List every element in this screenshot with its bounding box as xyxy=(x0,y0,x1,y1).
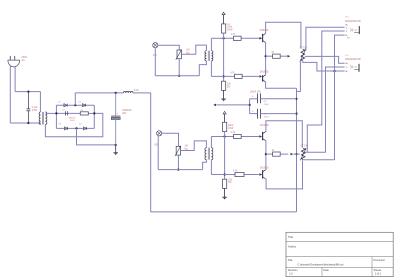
wire ch2 upper base rail xyxy=(211,136,233,138)
input jack J2 xyxy=(157,131,162,136)
svg-text:SPEAKER 8R: SPEAKER 8R xyxy=(345,20,361,23)
wire DC plus rail xyxy=(75,92,123,94)
wire spk1 pin3 feed xyxy=(335,35,345,160)
junction xyxy=(249,104,251,106)
wire P2 wiper to T2 xyxy=(181,141,207,151)
junction bridge right xyxy=(93,112,95,114)
trimmer TP2 xyxy=(301,148,305,159)
resistor R7 bias lower xyxy=(223,179,227,188)
svg-text:Date: Date xyxy=(324,269,330,272)
svg-text:0.1uF: 0.1uF xyxy=(32,107,38,109)
resistor R1 bias upper xyxy=(222,24,226,33)
wire bottom AC rail xyxy=(10,122,40,124)
junction xyxy=(115,144,117,146)
svg-text:47uF: 47uF xyxy=(264,104,270,106)
svg-text:SET 50: SET 50 xyxy=(300,145,308,147)
supply arrow VCC2 xyxy=(224,114,226,122)
wire bridge plus up xyxy=(74,93,76,105)
transistor Q2 xyxy=(262,75,264,81)
capacitor C4 xyxy=(257,93,259,103)
wire Q1 collector rail xyxy=(266,22,301,48)
wire P1 bottom xyxy=(178,59,180,76)
wire TP1 left down xyxy=(297,61,301,91)
wire P1 wiper to T1 xyxy=(181,45,206,54)
diode D2 xyxy=(82,104,85,107)
wire T2 right top up xyxy=(210,137,212,148)
wire step to T2 left bottom xyxy=(203,160,207,170)
svg-text:1mH: 1mH xyxy=(134,90,139,92)
junction xyxy=(224,173,226,175)
inductor L1 xyxy=(123,92,133,93)
svg-text:2N3055: 2N3055 xyxy=(260,167,269,170)
svg-text:Author: Author xyxy=(288,245,296,249)
svg-text:C:\p\words\Overlgrams\fishcham: C:\p\words\Overlgrams\fishchamp\B4.sch xyxy=(298,263,345,266)
svg-text:100k: 100k xyxy=(227,27,233,29)
junction xyxy=(178,75,180,77)
capacitor C1 X-cap xyxy=(27,92,29,109)
wire to R5 xyxy=(266,55,273,57)
svg-text:Title: Title xyxy=(288,235,294,239)
junction xyxy=(115,92,117,94)
wire R10 to arrow xyxy=(280,153,288,155)
resistor R4 series base Q2 xyxy=(235,74,243,78)
wire Q4 emitter rail xyxy=(266,160,302,189)
resistor R10 output xyxy=(273,152,281,156)
net arrow PSU xyxy=(213,104,216,107)
wire bias column ch1 xyxy=(223,33,225,81)
net arrow OUT1 xyxy=(288,55,291,58)
big loop left xyxy=(150,93,152,212)
wire top AC rail xyxy=(15,91,40,93)
wire ch1 upper base rail xyxy=(211,37,233,39)
resistor R8 series base Q3 xyxy=(234,134,242,138)
svg-text:275V: 275V xyxy=(32,110,38,112)
junction xyxy=(27,91,29,93)
wire ch2 lower base rail xyxy=(211,174,235,176)
junction xyxy=(295,98,297,100)
svg-text:2N3055: 2N3055 xyxy=(260,71,269,74)
input jack J1 xyxy=(153,43,158,48)
wire T2 right bottom down xyxy=(210,160,212,175)
svg-text:1/4W: 1/4W xyxy=(227,30,233,32)
svg-text:2N3055: 2N3055 xyxy=(260,124,269,127)
ground GND2 ch1 xyxy=(223,90,225,99)
wire step to T1 left bottom xyxy=(199,61,206,76)
wire Q3 emitter to Q4 collector xyxy=(265,141,267,170)
junction xyxy=(223,75,225,77)
net arrow OUT2 xyxy=(291,153,294,156)
wire to R10 xyxy=(266,153,273,155)
resistor R9 series base Q4 xyxy=(235,172,244,176)
potentiometer P1 volume xyxy=(177,50,181,59)
big common rail right xyxy=(296,88,298,212)
resistor R6 bias upper xyxy=(223,122,227,131)
big loop bottom xyxy=(151,211,297,213)
bridge rectifier frame xyxy=(55,105,57,128)
resistor R3 series base Q1 xyxy=(234,36,242,40)
svg-text:SET 50: SET 50 xyxy=(299,48,307,50)
potentiometer P2 volume xyxy=(176,146,180,155)
wire plug left pin down xyxy=(9,66,11,123)
resistor R2 bias lower xyxy=(222,81,226,90)
wire TP2 bottom rail xyxy=(303,159,334,161)
svg-text:Sheets: Sheets xyxy=(374,269,383,272)
wire TR1 secondary top to bridge xyxy=(45,112,56,114)
svg-text:M-: M- xyxy=(346,71,349,73)
wire arrow to trimmer xyxy=(293,153,299,155)
wire ch1 bottom rail xyxy=(155,75,199,77)
svg-text:Document: Document xyxy=(374,259,386,262)
wire J2 ground pin xyxy=(157,136,159,170)
svg-text:2N3055: 2N3055 xyxy=(260,29,269,32)
transformer TR1 mains xyxy=(39,92,41,112)
trimmer TP1 xyxy=(301,49,305,61)
svg-text:1.0: 1.0 xyxy=(289,273,293,276)
svg-text:12V: 12V xyxy=(226,24,230,26)
svg-text:Revision: Revision xyxy=(288,269,298,272)
title block frame xyxy=(286,232,393,276)
wire TP1 bottom to return xyxy=(303,62,345,71)
junction xyxy=(295,113,297,115)
wire J2 to pot xyxy=(162,133,179,146)
svg-text:5%: 5% xyxy=(228,182,231,184)
wire T1 right bottom down xyxy=(210,61,212,77)
wire spk2 pin2 feed xyxy=(305,67,345,152)
supply arrow VCC1 xyxy=(223,15,225,24)
wire caps left rail xyxy=(249,99,251,114)
diode D3 xyxy=(64,127,67,130)
AC mains plug P1 xyxy=(8,60,20,67)
wire caps feed left xyxy=(216,104,249,106)
wire J1 ground pin xyxy=(154,48,156,76)
wire R5 to arrow xyxy=(280,55,287,57)
svg-text:25V: 25V xyxy=(122,112,127,115)
svg-text:1 of 1: 1 of 1 xyxy=(375,273,382,276)
svg-text:File: File xyxy=(288,258,293,262)
diode D1 xyxy=(64,104,67,107)
resistor R5 output xyxy=(273,54,281,58)
capacitor C2 in bridge xyxy=(65,111,67,115)
ground GND3 ch2 xyxy=(224,188,226,197)
junction xyxy=(223,37,225,39)
svg-text:100k: 100k xyxy=(228,125,234,127)
transistor Q1 xyxy=(262,34,264,42)
transformer T2 driver xyxy=(205,148,207,160)
capacitor C3 electrolytic xyxy=(115,93,117,116)
svg-text:5%: 5% xyxy=(227,87,230,89)
wire plug right pin down xyxy=(14,66,16,92)
junction xyxy=(177,169,179,171)
wire wiper rail speakers xyxy=(305,56,345,63)
junction bridge left xyxy=(55,112,57,114)
resistor R0 in bridge xyxy=(80,112,88,115)
svg-text:AC: AC xyxy=(22,59,26,62)
junction xyxy=(224,135,226,137)
wire spk1 pin2 feed xyxy=(307,31,344,152)
svg-text:400V: 400V xyxy=(70,120,75,122)
svg-text:1/4W: 1/4W xyxy=(228,128,234,130)
wire P2 bottom xyxy=(177,155,179,170)
wire Q1 emitter to Q2 collector xyxy=(265,42,267,75)
transformer T1 driver xyxy=(205,51,206,61)
svg-text:47uF: 47uF xyxy=(264,116,270,118)
diode D4 xyxy=(83,127,86,130)
wire ch1 lower base rail xyxy=(211,75,234,77)
wire T1 right top up xyxy=(210,38,212,50)
wire TR1 secondary bottom loop xyxy=(45,113,102,136)
wire DC rail to loop xyxy=(133,92,151,94)
wire J1 to pot xyxy=(158,45,179,50)
capacitor C5 xyxy=(257,109,259,119)
wire bias column ch2 xyxy=(224,132,226,180)
junction ch1 output node xyxy=(265,55,267,57)
svg-text:SPEAKER 8R: SPEAKER 8R xyxy=(345,58,361,61)
junction bridge bottom xyxy=(75,127,77,129)
wire Q3 collector rail xyxy=(266,121,302,148)
junction xyxy=(333,70,335,72)
ground GND1 main xyxy=(115,145,117,153)
wire bridge minus down xyxy=(77,128,116,145)
transistor Q4 xyxy=(262,170,264,178)
wire spk1 pin1 feed xyxy=(306,27,345,50)
junction ch2 output node xyxy=(265,153,267,155)
junction bridge top xyxy=(74,104,76,106)
junction xyxy=(295,153,297,155)
transistor Q3 xyxy=(262,132,264,140)
wire Q2 emitter rail xyxy=(266,82,297,88)
wire ch2 bottom rail xyxy=(158,169,202,171)
pot1 pin circle xyxy=(302,61,304,63)
junction xyxy=(27,122,29,124)
